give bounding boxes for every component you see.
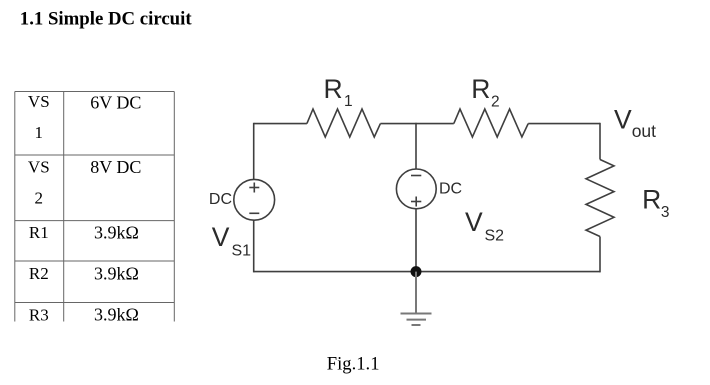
svg-text:V: V xyxy=(614,104,632,134)
svg-text:DC: DC xyxy=(439,181,462,198)
svg-text:R3: R3 xyxy=(29,305,49,324)
table row VS1 xyxy=(28,92,141,142)
label Vout xyxy=(614,104,656,141)
svg-text:S1: S1 xyxy=(232,242,252,259)
label DC of VS1 xyxy=(209,191,232,208)
svg-text:VS: VS xyxy=(28,158,50,177)
resistor R1 xyxy=(307,109,381,137)
parameter table xyxy=(15,92,175,322)
table row VS2 xyxy=(28,157,141,208)
wire bottom horizontal xyxy=(254,271,600,273)
svg-text:1: 1 xyxy=(344,93,353,110)
label R2 xyxy=(471,74,499,110)
label DC of VS2 xyxy=(439,181,462,198)
svg-text:2: 2 xyxy=(35,188,44,207)
ground xyxy=(401,272,432,325)
wire left vertical lower xyxy=(253,220,255,272)
label R1 xyxy=(324,74,353,110)
svg-text:R: R xyxy=(324,74,343,104)
svg-text:1: 1 xyxy=(35,123,44,142)
wire top-left horizontal xyxy=(254,123,307,125)
svg-text:VS: VS xyxy=(28,92,50,111)
title xyxy=(20,8,193,29)
svg-text:R2: R2 xyxy=(29,264,49,283)
junction node xyxy=(411,266,422,277)
wire top-right horizontal xyxy=(528,123,600,125)
table row R2 xyxy=(29,263,139,283)
svg-text:3.9kΩ: 3.9kΩ xyxy=(94,304,139,324)
svg-text:3.9kΩ: 3.9kΩ xyxy=(94,223,139,243)
svg-text:3: 3 xyxy=(661,204,670,221)
svg-text:Fig.1.1: Fig.1.1 xyxy=(327,353,380,374)
svg-text:6V DC: 6V DC xyxy=(90,92,141,112)
svg-text:R1: R1 xyxy=(29,223,49,242)
svg-text:R: R xyxy=(471,74,490,104)
svg-text:V: V xyxy=(465,207,483,237)
wire middle vertical lower xyxy=(415,209,417,272)
wire top-middle horizontal xyxy=(380,123,453,125)
svg-text:DC: DC xyxy=(209,191,232,208)
svg-text:out: out xyxy=(632,121,656,141)
svg-text:1.1 Simple DC circuit: 1.1 Simple DC circuit xyxy=(20,8,193,29)
voltage source VS2 xyxy=(396,169,436,209)
wire left vertical upper xyxy=(253,123,255,180)
svg-text:8V DC: 8V DC xyxy=(90,157,141,177)
wire right vertical upper xyxy=(599,123,601,160)
label R3 xyxy=(642,185,669,221)
svg-text:S2: S2 xyxy=(485,228,505,245)
wire right vertical lower xyxy=(599,237,601,273)
svg-text:R: R xyxy=(642,185,661,215)
figure caption xyxy=(327,353,380,374)
wire middle vertical upper xyxy=(415,123,417,169)
svg-text:2: 2 xyxy=(491,93,500,110)
table row R3 xyxy=(29,304,139,324)
resistor R2 xyxy=(454,109,528,137)
svg-text:3.9kΩ: 3.9kΩ xyxy=(94,263,139,283)
svg-text:V: V xyxy=(212,222,230,252)
voltage source VS1 xyxy=(234,179,275,220)
table row R1 xyxy=(29,223,139,243)
resistor R3 xyxy=(586,160,614,237)
label VS2 xyxy=(465,207,504,245)
label VS1 xyxy=(212,222,251,259)
